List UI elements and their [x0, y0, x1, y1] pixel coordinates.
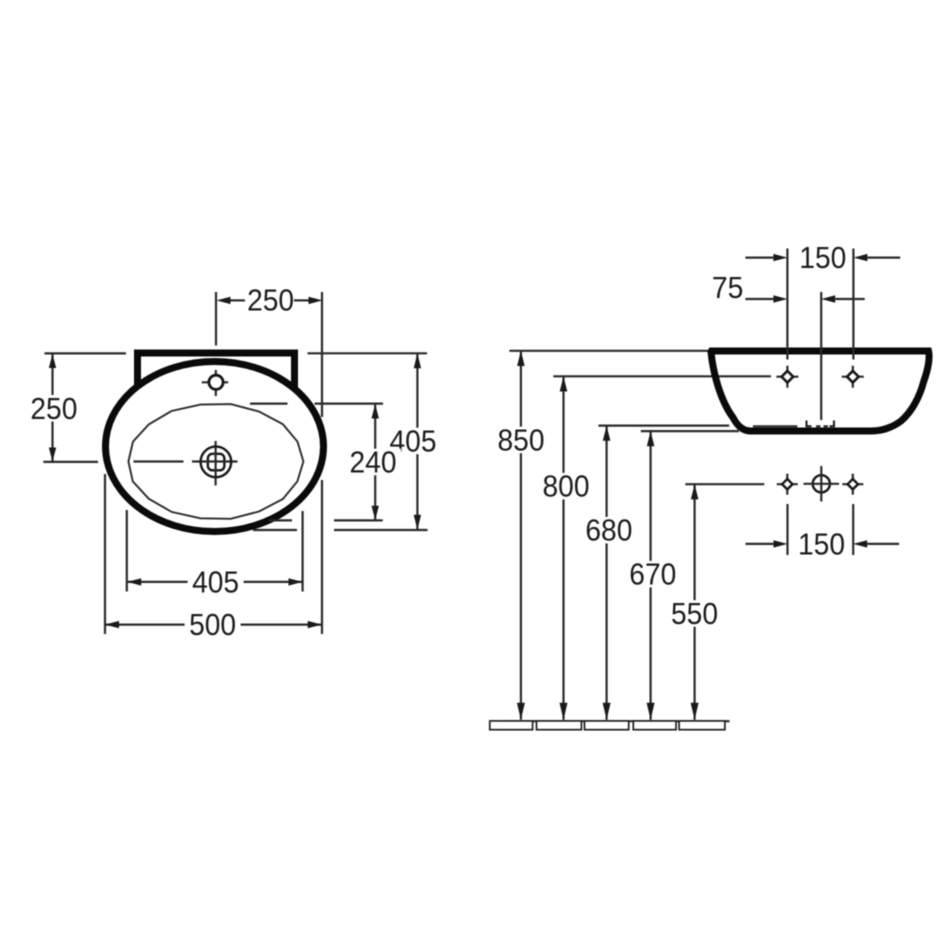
svg-text:680: 680	[585, 513, 632, 548]
svg-text:240: 240	[350, 445, 397, 480]
svg-text:250: 250	[30, 391, 77, 426]
svg-text:550: 550	[671, 596, 718, 631]
svg-text:850: 850	[498, 422, 545, 457]
svg-text:250: 250	[247, 283, 294, 318]
svg-text:670: 670	[629, 557, 676, 592]
svg-text:150: 150	[798, 526, 845, 561]
svg-text:150: 150	[799, 240, 846, 275]
svg-text:500: 500	[189, 607, 236, 642]
svg-text:405: 405	[192, 564, 239, 599]
svg-text:800: 800	[543, 469, 590, 504]
svg-text:75: 75	[712, 270, 744, 305]
